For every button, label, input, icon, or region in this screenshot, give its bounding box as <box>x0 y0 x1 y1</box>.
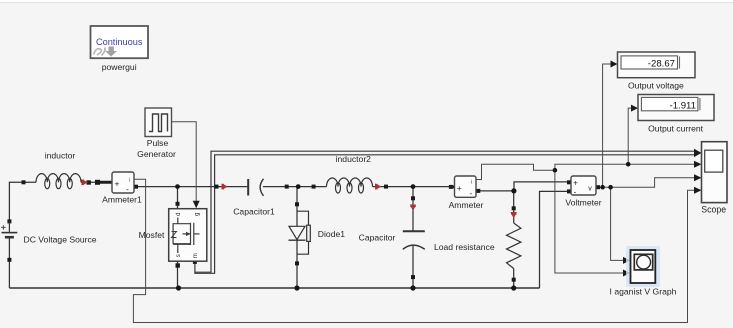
node: current signal branch to display <box>626 162 631 167</box>
port: inductor2 right terminal <box>384 185 388 189</box>
port: Ammeter output terminal <box>476 189 480 193</box>
node: voltage signal branch to display <box>600 185 605 190</box>
arrow into scope input 1 <box>694 149 702 157</box>
Ammeter block <box>449 176 476 198</box>
svg-text:I aganist V Graph: I aganist V Graph <box>610 286 677 296</box>
port: inductor2 left terminal <box>312 185 316 189</box>
port: Voltmeter minus terminal <box>567 189 571 193</box>
svg-text:inductor2: inductor2 <box>336 154 372 164</box>
port: inductor left terminal <box>22 180 26 184</box>
node: bus to load resistance bottom <box>511 285 516 290</box>
port: mosfet source terminal <box>176 263 180 267</box>
red polarity arrows <box>82 180 517 218</box>
svg-text:inductor: inductor <box>45 151 76 161</box>
svg-text:Mosfet: Mosfet <box>139 230 165 240</box>
DC Voltage Source (battery) <box>1 221 17 237</box>
wire: Voltmeter branch down to I against V graph input 1 <box>611 187 624 260</box>
Ammeter1 block <box>95 172 134 194</box>
port: Capacitor1 right terminal <box>285 185 289 189</box>
node: rail to diode branch <box>296 184 301 189</box>
svg-text:Diode1: Diode1 <box>318 229 345 239</box>
wire: mosfet drain branch <box>177 187 179 209</box>
Output current display <box>638 95 714 121</box>
port: Voltmeter v output terminal <box>596 185 600 189</box>
port: Capacitor1 left terminal <box>215 185 219 189</box>
port: Diode1 cathode terminal <box>295 261 299 265</box>
wire: Ammeter output to load junction then up to Voltmeter plus <box>478 182 569 191</box>
wire: inductor to Ammeter1 input <box>81 181 112 183</box>
wire: Voltmeter output to scope input 3 <box>598 178 695 187</box>
port: inductor right terminal <box>87 180 91 184</box>
svg-text:Continuous: Continuous <box>96 37 143 47</box>
wire: Ammeter1 current to scope input 4 (bottom run) <box>133 179 695 322</box>
svg-text:Scope: Scope <box>701 205 726 215</box>
svg-text:-: - <box>470 188 473 198</box>
svg-text:Capacitor: Capacitor <box>359 232 396 242</box>
svg-text:Output voltage: Output voltage <box>628 81 684 91</box>
svg-text:v: v <box>588 185 592 192</box>
arrow into scope input 2 <box>694 161 702 168</box>
svg-text:Ammeter1: Ammeter1 <box>102 194 142 204</box>
port: load resistance top terminal <box>512 206 516 210</box>
Output voltage display <box>618 52 696 78</box>
wire: mosfet m outer line to scope input 1 <box>195 151 695 272</box>
red polarity arrow: inductor to Ammeter1 <box>82 180 87 186</box>
wire: mosfet source branch to bottom bus <box>177 261 179 288</box>
arrow into I against V graph input 2 <box>623 270 630 277</box>
node: rail to mosfet drain <box>175 184 180 189</box>
svg-text:Load resistance: Load resistance <box>434 242 495 252</box>
svg-text:+: + <box>457 183 462 193</box>
inductor (left coil) <box>36 174 81 189</box>
svg-text:d: d <box>176 213 182 216</box>
wire: pulse generator to mosfet gate <box>172 122 197 202</box>
port: Diode1 anode terminal <box>295 202 299 206</box>
node: bus to mosfet source <box>176 285 181 290</box>
svg-text:i: i <box>471 180 472 186</box>
wire: Voltmeter branch up to Output voltage display <box>603 64 611 187</box>
svg-text:-: - <box>574 188 577 197</box>
svg-text:i: i <box>129 178 130 184</box>
arrow into Output current display <box>631 105 638 112</box>
wire: Ammeter current measurement to scope input 2 <box>476 164 695 179</box>
port: DC source plus terminal <box>7 219 11 223</box>
capacitor (output, vertical polarized) <box>403 231 425 249</box>
red polarity arrow: Capacitor branch <box>410 205 416 210</box>
scope block <box>702 142 728 203</box>
wire: load resistance upper lead <box>513 191 515 223</box>
node: voltage signal branch to XY graph <box>608 185 613 190</box>
svg-text:Generator: Generator <box>137 149 176 159</box>
svg-text:-: - <box>126 184 129 194</box>
inductor2 coil <box>327 178 373 193</box>
svg-text:Voltmeter: Voltmeter <box>565 197 601 207</box>
node: rail to capacitor branch <box>411 184 416 189</box>
port: mosfet drain terminal <box>176 202 180 206</box>
arrow into Output voltage display <box>611 61 618 68</box>
wire: DC source bottom lead to bus <box>8 239 10 289</box>
I against V Graph block (selected) <box>626 246 660 287</box>
red polarity arrow: before Capacitor1 <box>222 184 227 190</box>
svg-text:DC Voltage Source: DC Voltage Source <box>24 235 97 245</box>
port: Capacitor bottom terminal <box>411 275 415 279</box>
mosfet block <box>169 209 207 262</box>
wire: bottom bus up to Voltmeter minus <box>540 191 570 288</box>
port: DC source minus terminal <box>7 258 11 262</box>
port: load resistance bottom terminal <box>512 278 516 282</box>
port: Ammeter1 output terminal <box>134 185 138 189</box>
svg-text:Capacitor1: Capacitor1 <box>233 206 275 216</box>
wire: mosfet m inner line <box>195 155 695 273</box>
svg-text:-28.67: -28.67 <box>648 59 675 70</box>
red polarity arrow: load resistance branch <box>511 213 517 218</box>
svg-text:m: m <box>193 253 199 258</box>
arrow into mosfet gate <box>193 201 200 209</box>
port: Voltmeter plus terminal <box>567 180 571 184</box>
port: Ammeter input terminal <box>449 185 453 189</box>
arrow into scope input 4 <box>694 187 702 194</box>
node: bus to diode bottom <box>294 285 299 290</box>
wire: capacitor branch lower lead to bus <box>412 246 414 288</box>
arrow into I against V graph input 1 <box>623 257 630 264</box>
load resistance (zigzag resistor) <box>507 223 521 269</box>
svg-text:-1.911: -1.911 <box>670 100 697 111</box>
arrow into scope input 3 <box>694 174 702 181</box>
svg-text:powergui: powergui <box>102 62 137 72</box>
wire: diode branch vertical <box>296 187 298 288</box>
powergui block <box>91 26 149 58</box>
port: mosfet measurement terminal <box>193 260 197 264</box>
wire: DC source top lead up-right to inductor <box>9 182 36 221</box>
wire: load resistance lower lead to bus <box>513 269 515 289</box>
node: current signal branch to XY graph <box>553 168 558 173</box>
node: ammeter output to load resistance <box>511 188 516 193</box>
capacitor C1 (series, polarized) <box>248 179 263 196</box>
node: bus to capacitor bottom <box>410 285 415 290</box>
diode D1 with snubber <box>289 211 311 254</box>
wire: inductor2 to Ammeter input <box>373 186 455 188</box>
port: Capacitor top terminal <box>411 196 415 200</box>
wire: Capacitor1 right plate to inductor2 <box>263 186 327 188</box>
svg-text:+: + <box>115 178 120 188</box>
wire: bottom bus <box>9 287 539 289</box>
red polarity arrow: after inductor2 <box>376 184 381 190</box>
svg-text:Ammeter: Ammeter <box>449 200 484 210</box>
svg-text:Pulse: Pulse <box>147 138 169 148</box>
pulse generator block <box>145 108 172 137</box>
svg-text:+: + <box>573 179 578 188</box>
svg-text:s: s <box>176 254 182 257</box>
wire: Ammeter current branch up to Output current display <box>628 108 631 164</box>
Voltmeter block <box>571 176 596 197</box>
svg-text:Output current: Output current <box>648 123 704 133</box>
wire: capacitor branch upper lead <box>412 187 414 231</box>
svg-text:g: g <box>195 213 201 216</box>
wire: Ammeter1 output rail to Capacitor1 <box>136 186 248 188</box>
wire: Ammeter current branch to I against V graph input 2 <box>555 170 624 273</box>
